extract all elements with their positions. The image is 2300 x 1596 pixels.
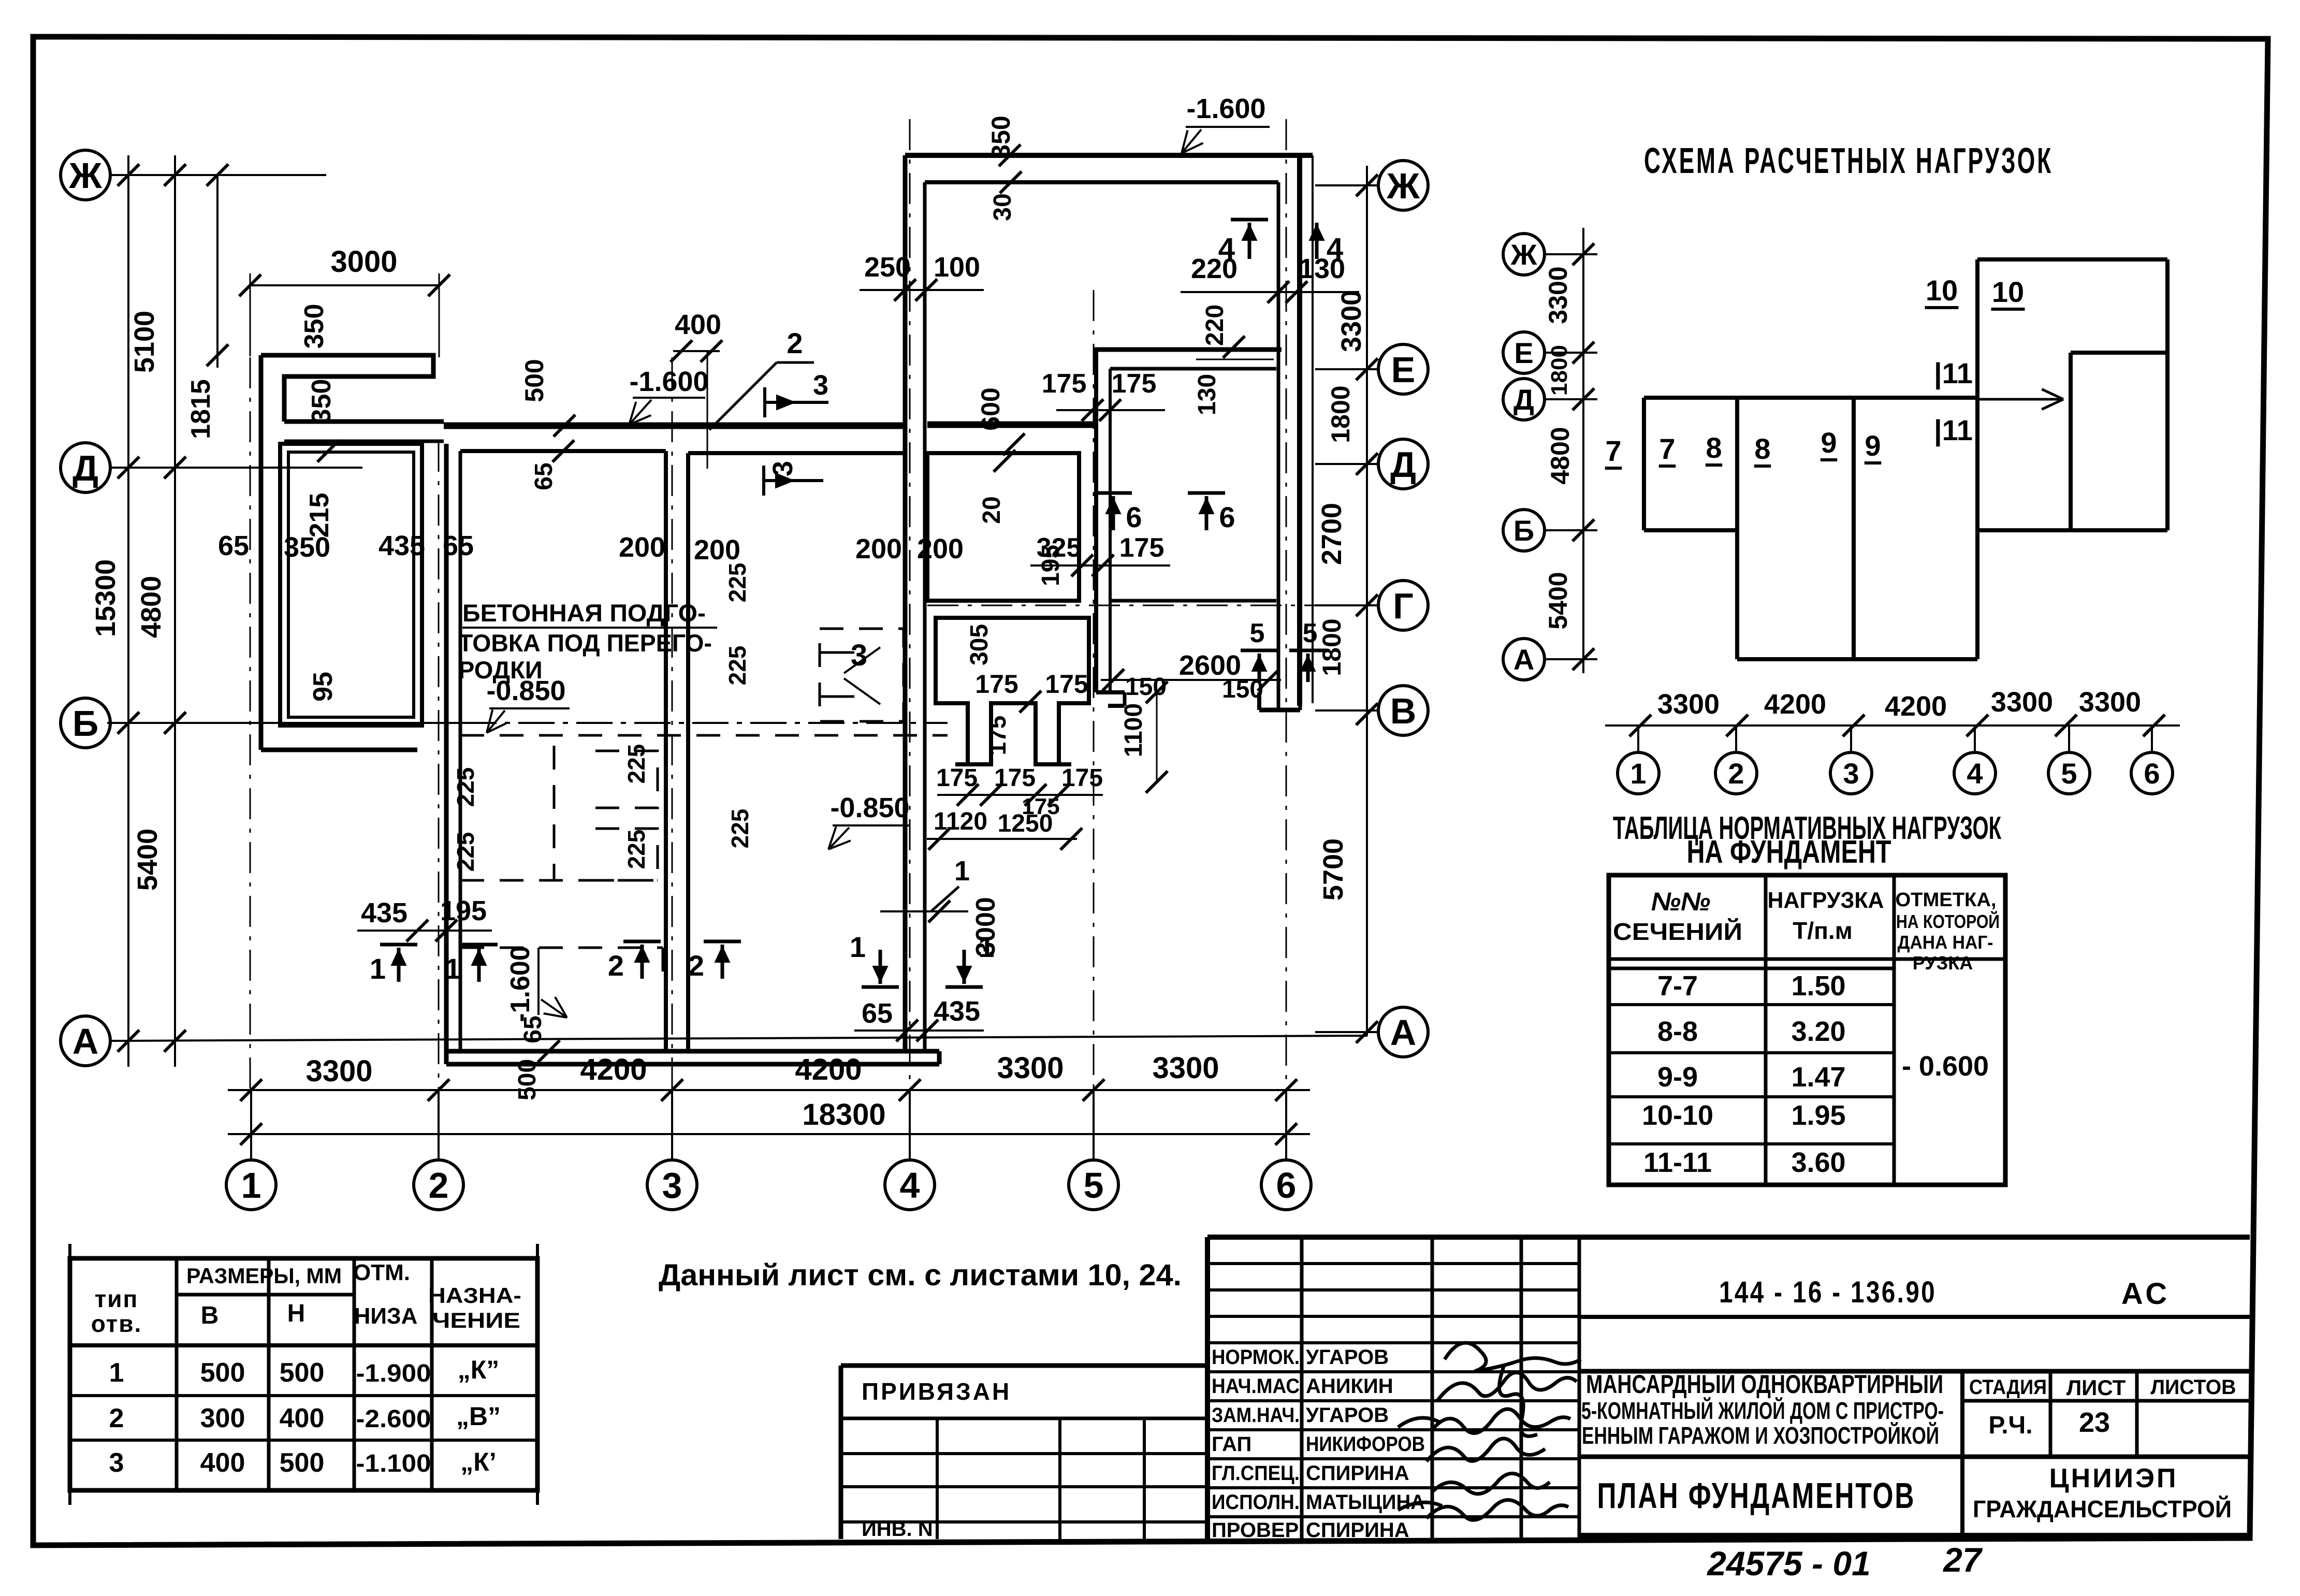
svg-text:1: 1 (241, 1165, 261, 1206)
svg-text:Д: Д (1513, 383, 1534, 416)
svg-text:5100: 5100 (129, 311, 160, 373)
svg-text:-0.850: -0.850 (830, 792, 909, 823)
svg-text:„К”: „К” (458, 1355, 500, 1384)
svg-text:175: 175 (1042, 369, 1087, 399)
svg-text:215: 215 (304, 493, 334, 538)
svg-text:Ж: Ж (1510, 238, 1537, 271)
svg-text:200: 200 (855, 533, 902, 564)
svg-text:4200: 4200 (1885, 691, 1947, 722)
svg-text:220: 220 (1201, 304, 1229, 346)
svg-text:Т/п.м: Т/п.м (1793, 917, 1852, 944)
svg-text:4800: 4800 (1546, 427, 1575, 484)
svg-text:ЛИСТ: ЛИСТ (2066, 1375, 2126, 1400)
svg-text:|11: |11 (1934, 357, 1973, 390)
svg-text:3000: 3000 (330, 245, 397, 279)
svg-text:Е: Е (1514, 337, 1533, 369)
svg-text:24575 - 01: 24575 - 01 (1706, 1544, 1871, 1583)
svg-text:130: 130 (1193, 374, 1221, 415)
svg-text:Ж: Ж (68, 155, 102, 196)
svg-text:10: 10 (1926, 274, 1958, 307)
svg-text:4: 4 (1218, 232, 1235, 266)
svg-text:2: 2 (608, 949, 624, 982)
svg-text:6: 6 (1126, 501, 1142, 533)
svg-text:175: 175 (1112, 369, 1157, 399)
svg-text:350: 350 (307, 379, 337, 424)
svg-text:175: 175 (1022, 794, 1059, 819)
svg-text:Б: Б (1513, 514, 1534, 547)
svg-text:ОТМ.: ОТМ. (353, 1260, 410, 1285)
svg-text:175: 175 (1119, 533, 1164, 563)
svg-text:НА ФУНДАМЕНТ: НА ФУНДАМЕНТ (1687, 834, 1891, 870)
svg-text:ТОВКА ПОД ПЕРЕГО-: ТОВКА ПОД ПЕРЕГО- (458, 629, 712, 657)
svg-text:ЕННЫМ ГАРАЖОМ И ХОЗПОСТРОЙКОЙ: ЕННЫМ ГАРАЖОМ И ХОЗПОСТРОЙКОЙ (1582, 1422, 1939, 1449)
svg-text:15300: 15300 (90, 559, 121, 637)
svg-text:5: 5 (2061, 757, 2077, 790)
svg-text:Н: Н (287, 1300, 305, 1327)
svg-text:1815: 1815 (186, 379, 216, 439)
svg-text:5400: 5400 (132, 829, 163, 891)
svg-text:1: 1 (1630, 757, 1646, 790)
svg-text:1.95: 1.95 (1791, 1100, 1845, 1131)
svg-text:„В”: „В” (456, 1402, 501, 1431)
svg-text:А: А (72, 1021, 99, 1062)
svg-text:600: 600 (976, 387, 1005, 430)
svg-text:6: 6 (1276, 1165, 1297, 1206)
svg-text:„К’: „К’ (460, 1447, 496, 1476)
svg-text:2: 2 (787, 327, 803, 359)
svg-text:СПИРИНА: СПИРИНА (1306, 1462, 1409, 1485)
svg-text:А: А (1513, 643, 1534, 676)
svg-text:-1.600: -1.600 (505, 946, 535, 1022)
svg-text:65: 65 (519, 1015, 547, 1043)
svg-text:8: 8 (1706, 431, 1722, 464)
svg-text:ЧЕНИЕ: ЧЕНИЕ (432, 1308, 520, 1332)
svg-text:УГАРОВ: УГАРОВ (1306, 1346, 1389, 1369)
svg-text:144 - 16 - 136.90: 144 - 16 - 136.90 (1719, 1275, 1937, 1309)
svg-text:225: 225 (623, 744, 650, 784)
svg-text:1800: 1800 (1317, 618, 1346, 676)
svg-text:Данный лист см. с листами 10,: Данный лист см. с листами 10, 24. (659, 1258, 1182, 1292)
svg-text:1: 1 (978, 931, 994, 963)
svg-text:5400: 5400 (1544, 572, 1573, 629)
svg-text:500: 500 (520, 359, 549, 402)
svg-text:СЕЧЕНИЙ: СЕЧЕНИЙ (1613, 918, 1742, 945)
svg-text:ПРИВЯЗАН: ПРИВЯЗАН (862, 1378, 1011, 1405)
svg-text:АС: АС (2121, 1277, 2170, 1311)
svg-text:2: 2 (429, 1165, 449, 1206)
svg-text:225: 225 (452, 767, 479, 807)
svg-text:3: 3 (109, 1448, 124, 1478)
svg-text:4200: 4200 (580, 1053, 647, 1086)
svg-text:-1.600: -1.600 (1186, 93, 1265, 124)
svg-text:Д: Д (1390, 444, 1416, 485)
svg-text:175: 175 (1045, 670, 1088, 699)
svg-text:НИЗА: НИЗА (354, 1303, 418, 1329)
svg-text:1: 1 (370, 952, 386, 985)
svg-text:350: 350 (284, 532, 330, 563)
svg-text:ИНВ. N: ИНВ. N (862, 1518, 933, 1541)
svg-text:-1.900: -1.900 (356, 1360, 431, 1387)
svg-text:435: 435 (361, 897, 407, 928)
svg-text:Д: Д (72, 448, 98, 488)
svg-text:400: 400 (675, 309, 721, 340)
svg-text:8-8: 8-8 (1657, 1016, 1698, 1047)
svg-text:-1.100: -1.100 (356, 1450, 431, 1477)
svg-text:500: 500 (280, 1448, 325, 1478)
svg-text:Ж: Ж (1386, 166, 1420, 206)
svg-text:1: 1 (109, 1358, 124, 1388)
svg-text:1800: 1800 (1547, 345, 1572, 396)
svg-text:6: 6 (2144, 757, 2160, 790)
svg-text:195: 195 (440, 895, 487, 926)
svg-text:1: 1 (445, 952, 461, 985)
svg-text:В: В (1390, 691, 1417, 731)
svg-text:АНИКИН: АНИКИН (1306, 1375, 1393, 1398)
svg-text:175: 175 (975, 670, 1018, 699)
svg-text:225: 225 (724, 646, 751, 686)
svg-text:1.47: 1.47 (1791, 1062, 1845, 1093)
svg-text:УГАРОВ: УГАРОВ (1306, 1404, 1389, 1427)
svg-text:65: 65 (530, 462, 558, 490)
svg-text:5: 5 (1250, 618, 1265, 648)
svg-text:435: 435 (379, 530, 425, 561)
svg-text:СПИРИНА: СПИРИНА (1306, 1519, 1409, 1542)
svg-text:ЦНИИЭП: ЦНИИЭП (2049, 1463, 2178, 1493)
svg-text:400: 400 (280, 1403, 325, 1433)
svg-text:195: 195 (1037, 545, 1065, 586)
svg-text:7: 7 (1605, 434, 1621, 467)
svg-text:А: А (1390, 1012, 1417, 1053)
svg-text:Б: Б (72, 703, 98, 744)
svg-text:3300: 3300 (1657, 689, 1720, 720)
svg-text:СТАДИЯ: СТАДИЯ (1969, 1376, 2047, 1399)
svg-text:1800: 1800 (1326, 385, 1355, 443)
svg-text:3300: 3300 (997, 1051, 1064, 1085)
svg-text:9-9: 9-9 (1657, 1062, 1698, 1093)
svg-text:1120: 1120 (934, 808, 987, 835)
svg-text:4200: 4200 (795, 1053, 862, 1086)
svg-text:В: В (201, 1302, 219, 1329)
svg-text:5700: 5700 (1318, 838, 1349, 901)
svg-text:3.20: 3.20 (1791, 1016, 1845, 1047)
svg-text:2: 2 (1728, 757, 1744, 790)
svg-text:2700: 2700 (1316, 503, 1347, 565)
svg-text:65: 65 (218, 530, 249, 561)
svg-text:10-10: 10-10 (1642, 1100, 1713, 1131)
svg-text:9: 9 (1865, 429, 1881, 462)
svg-text:|11: |11 (1934, 414, 1973, 447)
svg-text:175: 175 (984, 716, 1011, 756)
svg-text:11-11: 11-11 (1643, 1147, 1712, 1178)
svg-text:НИКИФОРОВ: НИКИФОРОВ (1306, 1433, 1425, 1456)
svg-text:РУЗКА: РУЗКА (1913, 952, 1973, 974)
svg-text:5: 5 (1303, 618, 1318, 648)
svg-text:ИСПОЛН.: ИСПОЛН. (1212, 1491, 1300, 1514)
svg-text:ДАНА НАГ-: ДАНА НАГ- (1898, 932, 1993, 953)
svg-text:ГРАЖДАНСЕЛЬСТРОЙ: ГРАЖДАНСЕЛЬСТРОЙ (1973, 1496, 2232, 1522)
svg-text:7: 7 (1659, 432, 1675, 465)
svg-text:НА КОТОРОЙ: НА КОТОРОЙ (1896, 910, 2000, 932)
svg-text:3300: 3300 (1544, 266, 1573, 324)
svg-text:МАНСАРДНЫЙ ОДНОКВАРТИРНЫЙ: МАНСАРДНЫЙ ОДНОКВАРТИРНЫЙ (1586, 1369, 1943, 1399)
svg-text:95: 95 (308, 672, 338, 702)
svg-text:3300: 3300 (1991, 687, 2053, 718)
svg-text:тип: тип (95, 1285, 139, 1312)
svg-text:3: 3 (767, 461, 798, 476)
svg-text:300: 300 (200, 1403, 245, 1433)
svg-text:225: 225 (724, 563, 751, 603)
svg-text:200: 200 (917, 533, 964, 564)
svg-text:5-КОМНАТНЫЙ ЖИЛОЙ ДОМ С ПРИСТР: 5-КОМНАТНЫЙ ЖИЛОЙ ДОМ С ПРИСТРО- (1581, 1397, 1944, 1424)
svg-text:435: 435 (934, 996, 980, 1027)
svg-text:-1.600: -1.600 (629, 366, 708, 397)
svg-text:РОДКИ: РОДКИ (458, 656, 543, 684)
svg-text:НАГРУЗКА: НАГРУЗКА (1768, 888, 1884, 913)
svg-text:ГЛ.СПЕЦ.: ГЛ.СПЕЦ. (1212, 1462, 1300, 1485)
svg-text:225: 225 (726, 809, 753, 849)
svg-text:1100: 1100 (1120, 703, 1147, 757)
svg-text:отв.: отв. (91, 1310, 142, 1337)
svg-text:3: 3 (662, 1165, 682, 1206)
svg-text:3300: 3300 (1336, 290, 1367, 352)
svg-text:350: 350 (299, 304, 329, 349)
svg-text:1.50: 1.50 (1791, 970, 1845, 1002)
svg-text:4800: 4800 (136, 576, 167, 638)
svg-text:225: 225 (623, 830, 650, 869)
svg-text:ЛИСТОВ: ЛИСТОВ (2151, 1376, 2236, 1399)
svg-text:3.60: 3.60 (1791, 1147, 1845, 1178)
svg-text:ПРОВЕР: ПРОВЕР (1212, 1519, 1299, 1542)
svg-text:1: 1 (850, 931, 866, 963)
svg-text:НОРМОК.: НОРМОК. (1212, 1346, 1300, 1369)
svg-text:ПЛАН ФУНДАМЕНТОВ: ПЛАН ФУНДАМЕНТОВ (1597, 1475, 1916, 1516)
svg-text:Г: Г (1393, 586, 1414, 626)
svg-text:4: 4 (1327, 232, 1343, 266)
svg-text:100: 100 (934, 252, 980, 283)
svg-text:РАЗМЕРЫ, ММ: РАЗМЕРЫ, ММ (186, 1264, 342, 1288)
svg-text:20: 20 (978, 496, 1006, 524)
svg-text:10: 10 (1992, 275, 2024, 308)
svg-text:1: 1 (954, 855, 970, 887)
svg-text:2: 2 (109, 1403, 124, 1433)
svg-text:2: 2 (688, 949, 704, 982)
svg-text:305: 305 (966, 624, 993, 665)
svg-text:5: 5 (1084, 1165, 1104, 1206)
svg-text:200: 200 (694, 534, 740, 565)
svg-text:3: 3 (813, 370, 828, 401)
svg-text:175: 175 (936, 764, 978, 792)
svg-text:9: 9 (1821, 426, 1837, 459)
svg-text:400: 400 (200, 1448, 245, 1478)
svg-text:БЕТОННАЯ ПОДГО-: БЕТОННАЯ ПОДГО- (462, 599, 706, 627)
svg-text:Е: Е (1391, 350, 1416, 390)
svg-text:ЗАМ.НАЧ.: ЗАМ.НАЧ. (1212, 1404, 1300, 1427)
svg-text:-2.600: -2.600 (356, 1405, 431, 1433)
svg-text:- 0.600: - 0.600 (1902, 1051, 1989, 1082)
svg-text:65: 65 (862, 998, 893, 1029)
svg-text:7-7: 7-7 (1657, 970, 1698, 1002)
svg-text:500: 500 (200, 1358, 245, 1388)
svg-text:4: 4 (1967, 757, 1983, 790)
svg-text:3300: 3300 (1152, 1051, 1219, 1085)
svg-text:НАЧ.МАС: НАЧ.МАС (1212, 1375, 1300, 1398)
svg-text:18300: 18300 (802, 1098, 885, 1131)
svg-text:4200: 4200 (1764, 689, 1826, 720)
svg-text:3300: 3300 (305, 1054, 372, 1088)
svg-text:3: 3 (1843, 757, 1859, 790)
svg-text:6: 6 (1219, 501, 1235, 533)
svg-text:27: 27 (1942, 1541, 1983, 1579)
svg-text:НАЗНА-: НАЗНА- (428, 1283, 521, 1308)
svg-text:23: 23 (2079, 1407, 2110, 1438)
svg-text:8: 8 (1754, 432, 1770, 465)
svg-text:150: 150 (1222, 676, 1263, 703)
svg-text:ОТМЕТКА,: ОТМЕТКА, (1896, 889, 1997, 911)
svg-text:МАТЫЦИНА: МАТЫЦИНА (1306, 1491, 1425, 1514)
svg-text:3300: 3300 (2079, 687, 2141, 718)
svg-text:ГАП: ГАП (1212, 1433, 1251, 1456)
svg-text:225: 225 (452, 832, 479, 872)
svg-text:№№: №№ (1651, 887, 1711, 916)
svg-text:СХЕМА РАСЧЕТНЫХ НАГРУЗОК: СХЕМА РАСЧЕТНЫХ НАГРУЗОК (1644, 140, 2053, 181)
svg-text:250: 250 (864, 252, 911, 283)
svg-text:65: 65 (443, 530, 474, 561)
svg-text:200: 200 (619, 532, 665, 563)
svg-text:30: 30 (989, 193, 1016, 221)
svg-text:4: 4 (900, 1165, 920, 1206)
svg-text:Р.Ч.: Р.Ч. (1988, 1412, 2032, 1439)
svg-text:500: 500 (280, 1358, 325, 1388)
